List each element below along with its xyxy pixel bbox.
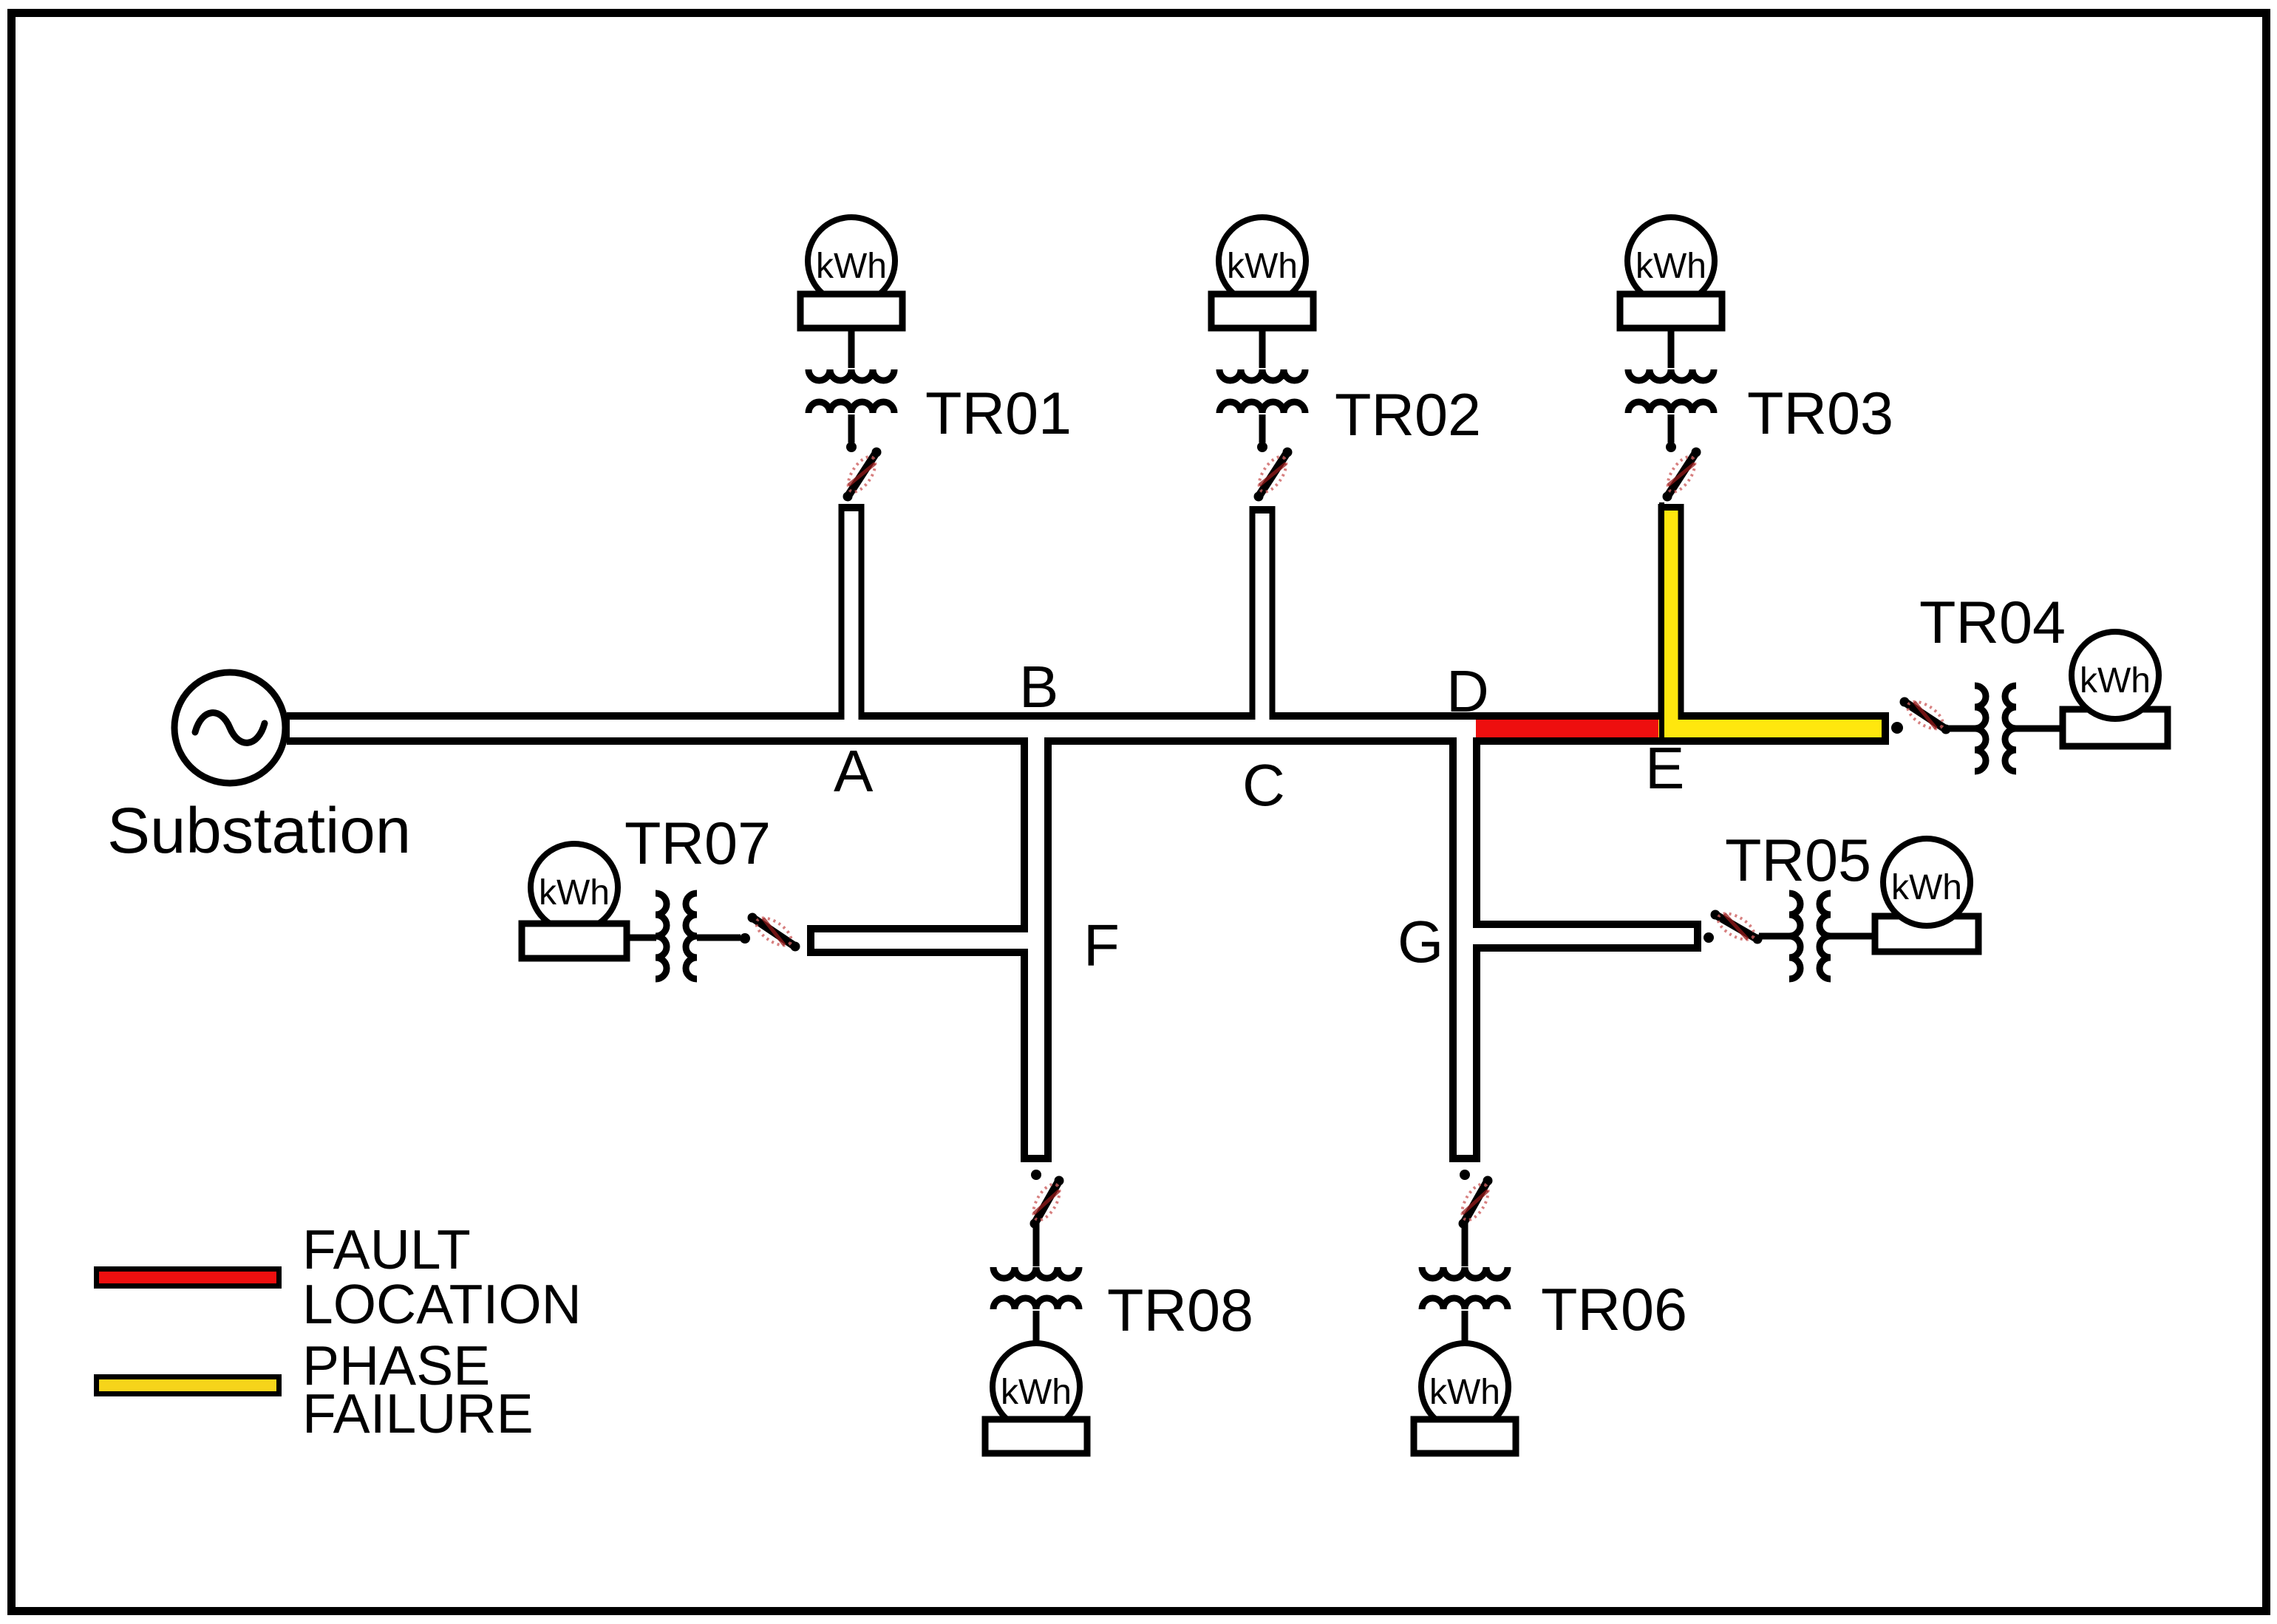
wire main bus A-B-C-D-E outline	[287, 712, 1889, 745]
switch contact dot of TR08	[1031, 1170, 1041, 1180]
meter pedestal of TR03	[1620, 294, 1722, 328]
wire transformer to switch contact TR03	[1668, 414, 1675, 443]
meter pedestal of TR06	[1414, 1419, 1516, 1453]
wire transformer to meter TR04	[2016, 726, 2063, 732]
svg-text:TR01: TR01	[925, 381, 1072, 447]
svg-text:A: A	[834, 738, 874, 804]
wire G-TR05 interior	[1460, 928, 1694, 944]
phase failure segment E to TR04 (yellow)	[1658, 720, 1882, 737]
switch scribble of TR08	[1028, 1180, 1065, 1224]
transformer TR08	[993, 1267, 1079, 1278]
svg-text:D: D	[1446, 658, 1489, 724]
switch scribble of TR07	[752, 912, 795, 951]
svg-text:kWh: kWh	[816, 247, 887, 286]
substation sine symbol	[195, 713, 265, 743]
wire tap A interior	[845, 511, 859, 733]
svg-text:TR02: TR02	[1335, 382, 1481, 448]
switch blade of TR08	[1035, 1181, 1059, 1224]
svg-text:LOCATION: LOCATION	[302, 1273, 582, 1335]
switch scribble of TR02	[1253, 452, 1291, 496]
kWh meter of TR03	[1627, 217, 1715, 304]
switch contact dot of TR04	[1891, 722, 1903, 734]
svg-text:TR04: TR04	[1919, 590, 2066, 656]
wire tap at node E to TR03 switch outline	[1658, 504, 1684, 739]
transformer TR05	[1789, 893, 1800, 979]
transformer TR03	[1628, 369, 1714, 381]
switch scribble of TR01	[843, 452, 880, 496]
substation source circle	[174, 672, 285, 783]
svg-text:Substation: Substation	[107, 795, 411, 867]
svg-text:B: B	[1019, 654, 1058, 720]
wire tap at node A to TR01 switch outline	[839, 504, 865, 739]
wire pedestal to transformer TR02	[1259, 328, 1266, 368]
svg-text:FAULT: FAULT	[302, 1218, 471, 1280]
svg-text:C: C	[1242, 752, 1285, 818]
svg-text:F: F	[1083, 912, 1120, 978]
kWh meter of TR04	[2072, 632, 2159, 719]
wire node B down to F and TR08 switch outline	[1021, 718, 1052, 1162]
switch scribble of TR04	[1903, 696, 1947, 734]
kWh meter of TR05	[1883, 839, 1970, 926]
wire transformer to meter TR06	[1462, 1311, 1468, 1343]
wire transformer to switch contact TR07	[697, 935, 741, 941]
wire switch to transformer TR08	[1033, 1222, 1040, 1266]
svg-text:kWh: kWh	[539, 873, 610, 912]
svg-text:kWh: kWh	[2080, 661, 2151, 700]
meter pedestal of TR07	[522, 924, 627, 958]
kWh meter of TR06	[1421, 1343, 1508, 1430]
svg-text:kWh: kWh	[1001, 1373, 1072, 1412]
wire tap at node C to TR02 switch outline	[1250, 506, 1276, 739]
switch blade of TR07	[752, 918, 795, 946]
switch blade of TR01	[848, 452, 877, 497]
svg-text:kWh: kWh	[1429, 1373, 1500, 1412]
separator wall left of TR03 tap	[1659, 502, 1664, 737]
wire pedestal to transformer TR07	[627, 935, 656, 941]
svg-text:kWh: kWh	[1891, 868, 1962, 907]
fault location segment D-E (red)	[1476, 720, 1661, 737]
wire tap E interior	[1664, 511, 1678, 733]
svg-text:G: G	[1398, 909, 1443, 975]
transformer TR07	[656, 893, 667, 979]
wire switch to transformer TR06	[1462, 1222, 1468, 1266]
svg-text:FAILURE: FAILURE	[302, 1382, 534, 1444]
wire transformer to meter TR05	[1831, 933, 1876, 940]
switch blade of TR02	[1259, 452, 1287, 497]
switch scribble of TR06	[1457, 1180, 1494, 1224]
kWh meter of TR08	[993, 1343, 1080, 1430]
wire D-G interior	[1457, 724, 1473, 1155]
wire switch to transformer TR05	[1759, 933, 1789, 940]
wire node F left to TR07 switch outline	[807, 925, 1044, 956]
wire pedestal to transformer TR03	[1668, 328, 1675, 368]
switch blade of TR04	[1905, 702, 1946, 729]
meter pedestal of TR05	[1875, 916, 1978, 952]
meter pedestal of TR04	[2063, 709, 2168, 746]
svg-text:TR05: TR05	[1725, 828, 1871, 894]
wire node G right to TR05 switch outline	[1457, 921, 1701, 952]
kWh meter of TR01	[808, 217, 895, 304]
wire switch to transformer TR04	[1948, 726, 1975, 732]
svg-text:TR03: TR03	[1747, 381, 1893, 447]
kWh meter of TR02	[1219, 217, 1306, 304]
svg-text:kWh: kWh	[1227, 247, 1298, 286]
transformer TR02	[1219, 369, 1305, 381]
wire F-TR07 interior	[814, 932, 1039, 949]
wire transformer to switch contact TR02	[1259, 414, 1266, 443]
wire main bus interior	[290, 720, 1882, 737]
transformer TR04	[1975, 686, 1986, 771]
transformer TR06	[1422, 1267, 1508, 1278]
switch blade of TR03	[1667, 452, 1696, 497]
phase failure segment E up to TR03 (yellow)	[1664, 511, 1678, 731]
meter pedestal of TR08	[985, 1419, 1087, 1453]
switch contact dot of TR06	[1460, 1170, 1470, 1180]
kWh meter of TR07	[531, 844, 618, 931]
wire transformer to meter TR08	[1033, 1311, 1040, 1343]
wire transformer to switch contact TR01	[848, 414, 855, 443]
wire B-F interior	[1028, 724, 1044, 1155]
switch contact dot of TR05	[1704, 932, 1714, 943]
switch scribble of TR03	[1662, 452, 1700, 496]
transformer TR01	[809, 369, 894, 381]
svg-text:E: E	[1645, 735, 1684, 801]
wire node D down to G and TR06 switch outline	[1449, 718, 1480, 1162]
switch blade of TR05	[1715, 915, 1757, 939]
wire pedestal to transformer TR01	[848, 328, 855, 368]
legend fault location swatch (red)	[97, 1269, 279, 1286]
wire tap C interior	[1256, 514, 1270, 733]
svg-text:TR06: TR06	[1541, 1277, 1687, 1343]
switch blade of TR06	[1463, 1181, 1488, 1224]
meter pedestal of TR02	[1211, 294, 1313, 328]
svg-text:kWh: kWh	[1636, 247, 1706, 286]
legend phase failure swatch (yellow)	[97, 1377, 279, 1394]
switch scribble of TR05	[1714, 908, 1758, 945]
meter pedestal of TR01	[800, 294, 902, 328]
svg-text:TR08: TR08	[1107, 1277, 1253, 1344]
svg-text:TR07: TR07	[624, 811, 771, 877]
